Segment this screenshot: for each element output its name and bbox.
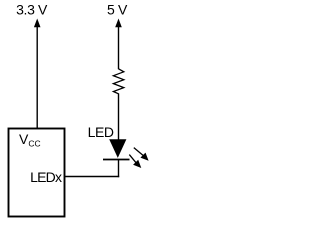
- LED cathode bar: [103, 159, 130, 161]
- wire resistor to LED anode: [118, 93, 120, 140]
- wire to LEDx pin: [65, 176, 120, 178]
- resistor R: [113, 69, 123, 94]
- light emission arrow 2: [129, 155, 141, 168]
- wire 3.3V supply to VCC pin: [36, 27, 38, 130]
- power arrow 3.3 V: [34, 19, 41, 28]
- wire LED cathode down: [118, 160, 120, 178]
- svg-text:LEDx: LEDx: [30, 169, 62, 185]
- svg-text:LED: LED: [88, 124, 114, 140]
- light emission arrow 1: [134, 148, 149, 161]
- MCU box U1: [9, 129, 65, 217]
- power arrow 5 V: [115, 19, 122, 28]
- svg-text:3.3 V: 3.3 V: [16, 2, 48, 18]
- svg-text:5 V: 5 V: [107, 2, 128, 18]
- wire 5V supply to resistor R: [118, 27, 120, 70]
- LED anode triangle: [109, 139, 126, 158]
